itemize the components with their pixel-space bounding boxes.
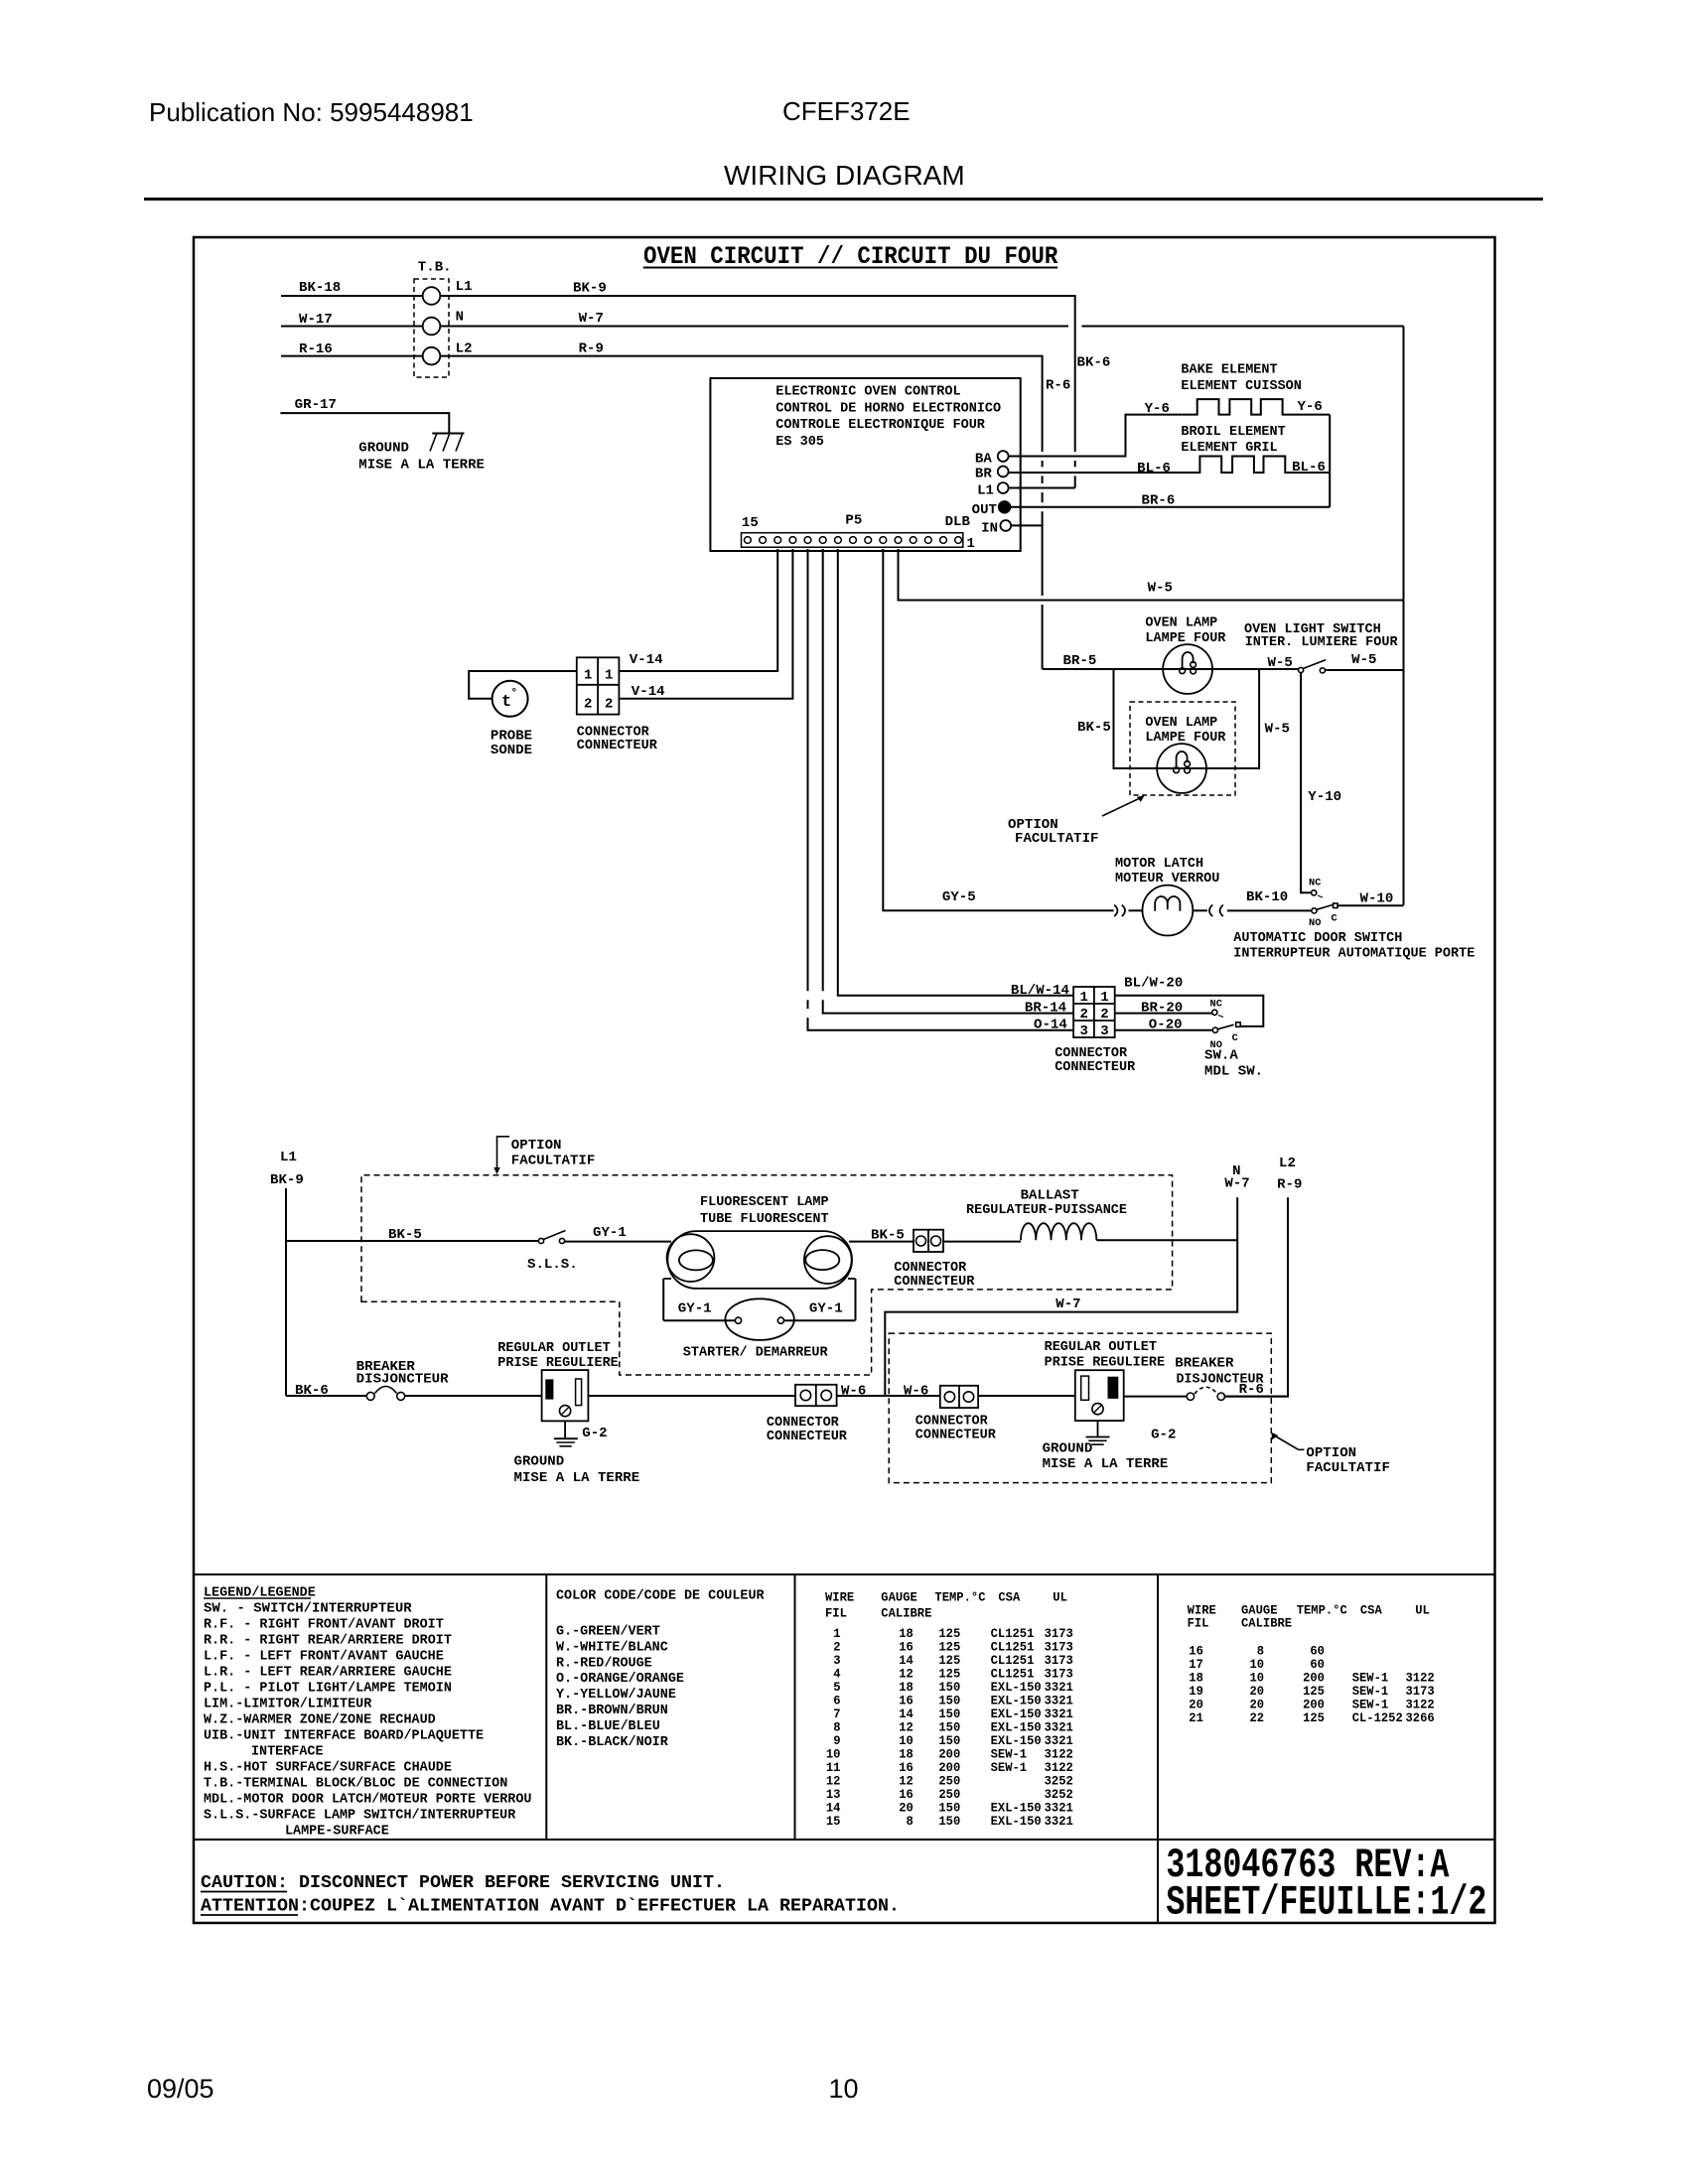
svg-text:BK-6: BK-6 [1077,356,1111,371]
svg-text:16: 16 [899,1788,914,1802]
wire probe to connector [469,671,577,699]
svg-text:R.F. - RIGHT FRONT/AVANT DROIT: R.F. - RIGHT FRONT/AVANT DROIT [204,1617,444,1632]
wire V-14 (pin 2) [619,549,792,700]
svg-text:18: 18 [899,1681,914,1695]
svg-text:15: 15 [826,1815,841,1829]
svg-text:FIL: FIL [825,1607,847,1621]
svg-text:CONNECTOR: CONNECTOR [894,1261,967,1276]
terminal L1 [977,482,1009,498]
wire W-5 [899,549,1404,601]
svg-text:5: 5 [833,1681,840,1695]
svg-text:DISJONCTEUR: DISJONCTEUR [356,1372,450,1387]
svg-text:OVEN LAMP: OVEN LAMP [1145,616,1217,631]
svg-text:NC: NC [1309,878,1322,889]
svg-text:BR.-BROWN/BRUN: BR.-BROWN/BRUN [556,1704,668,1718]
svg-text:3321: 3321 [1045,1734,1074,1748]
svg-text:3173: 3173 [1406,1685,1435,1699]
temperature probe [491,681,532,758]
svg-text:INTERRUPTEUR AUTOMATIQUE PORTE: INTERRUPTEUR AUTOMATIQUE PORTE [1233,947,1475,962]
svg-text:SEW-1: SEW-1 [991,1761,1028,1775]
svg-text:CALIBRE: CALIBRE [881,1607,932,1621]
node L2 (R-9) [1225,1157,1303,1397]
connector (W-6 left) [767,1385,848,1444]
svg-text:FACULTATIF: FACULTATIF [511,1155,596,1169]
svg-text:125: 125 [938,1654,960,1668]
wire outlet to breaker (right) [1124,1396,1187,1398]
wire BR-6 [1010,494,1330,509]
svg-text:CONNECTEUR: CONNECTEUR [1055,1060,1136,1075]
svg-text:REGULAR OUTLET: REGULAR OUTLET [1045,1340,1157,1355]
svg-text:NO: NO [1309,917,1321,929]
svg-text:3122: 3122 [1406,1672,1435,1686]
svg-text:T.B.-TERMINAL BLOCK/BLOC DE CO: T.B.-TERMINAL BLOCK/BLOC DE CONNECTION [204,1776,507,1791]
svg-text:TEMP.°C: TEMP.°C [934,1591,986,1605]
svg-text:W-5: W-5 [1268,656,1293,671]
wire BA to bake element [1009,415,1183,457]
svg-text:W-5: W-5 [1265,722,1290,737]
svg-text:FACULTATIF: FACULTATIF [1015,832,1099,847]
option boundary (fluorescent assembly) [361,1175,1173,1375]
svg-text:2: 2 [605,698,613,713]
svg-text:FIL: FIL [1188,1617,1209,1631]
svg-text:1: 1 [584,669,592,684]
svg-text:125: 125 [938,1627,960,1641]
svg-text:WIRE: WIRE [825,1591,855,1605]
svg-text:LIM.-LIMITOR/LIMITEUR: LIM.-LIMITOR/LIMITEUR [204,1697,372,1711]
svg-text:3266: 3266 [1406,1711,1435,1725]
wire W-7 return [885,1240,1237,1396]
connector P5 [742,514,975,552]
svg-text:STARTER/ DEMARREUR: STARTER/ DEMARREUR [683,1346,829,1361]
svg-text:20: 20 [1250,1685,1265,1699]
wire ballast to N [1096,1239,1237,1241]
svg-text:BK-9: BK-9 [270,1173,304,1188]
svg-text:150: 150 [938,1720,960,1734]
svg-text:S.L.S.: S.L.S. [527,1258,578,1273]
svg-text:W-7: W-7 [579,312,604,327]
svg-text:EXL-150: EXL-150 [991,1815,1042,1829]
svg-text:FLUORESCENT LAMP: FLUORESCENT LAMP [700,1195,829,1210]
svg-text:W-7: W-7 [1224,1177,1249,1192]
svg-text:BK-10: BK-10 [1246,890,1288,905]
svg-text:13: 13 [826,1788,841,1802]
svg-text:S.L.S.-SURFACE LAMP SWITCH/INT: S.L.S.-SURFACE LAMP SWITCH/INTERRUPTEUR [204,1808,516,1823]
svg-text:LAMPE FOUR: LAMPE FOUR [1145,731,1226,746]
svg-text:G-2: G-2 [1151,1429,1176,1443]
svg-text:60: 60 [1310,1645,1325,1659]
svg-text:BREAKER: BREAKER [1175,1356,1234,1371]
svg-text:1: 1 [967,537,975,552]
option label (right outlet) [1271,1433,1390,1476]
svg-text:CONTROLE ELECTRONIQUE FOUR: CONTROLE ELECTRONIQUE FOUR [775,418,985,433]
svg-text:19: 19 [1189,1685,1203,1699]
svg-text:CSA: CSA [998,1591,1020,1605]
svg-text:O.-ORANGE/ORANGE: O.-ORANGE/ORANGE [556,1672,684,1687]
svg-text:T.B.: T.B. [418,260,452,275]
terminal BR [975,467,1009,482]
wire BK-5 (right of lamp) [849,1228,914,1243]
svg-text:GROUND: GROUND [514,1455,565,1470]
inline connector (right) [1209,905,1212,917]
svg-text:COLOR CODE/CODE DE COULEUR: COLOR CODE/CODE DE COULEUR [556,1589,766,1604]
svg-text:3252: 3252 [1045,1788,1073,1802]
svg-text:PROBE: PROBE [491,729,532,744]
svg-text:L1: L1 [977,484,994,499]
svg-text:°: ° [511,688,518,700]
svg-text:OPTION: OPTION [511,1139,562,1154]
svg-text:16: 16 [899,1694,914,1707]
wire BK-9 / BK-6 [440,282,1110,488]
wire BL/W-14 [838,549,1073,999]
svg-text:BAKE ELEMENT: BAKE ELEMENT [1181,362,1277,377]
svg-text:CSA: CSA [1360,1603,1382,1617]
automatic door switch [1233,878,1475,962]
svg-text:3173: 3173 [1045,1667,1073,1681]
connector (ballast) [894,1230,975,1291]
electronic oven control ES 305 [710,378,1020,551]
svg-text:H.S.-HOT SURFACE/SURFACE CHAUD: H.S.-HOT SURFACE/SURFACE CHAUDE [204,1760,452,1775]
svg-text:BK-9: BK-9 [573,282,607,297]
wire BR-14 [823,549,1073,1016]
svg-text:MOTOR LATCH: MOTOR LATCH [1115,857,1203,872]
svg-text:150: 150 [938,1734,960,1748]
svg-text:22: 22 [1250,1711,1265,1725]
svg-text:4: 4 [833,1667,841,1681]
svg-text:10: 10 [826,1747,841,1761]
svg-text:3321: 3321 [1045,1801,1074,1815]
svg-text:BR-5: BR-5 [1063,654,1097,669]
wire table 2 [1178,1574,1495,1725]
wire R-16 [281,342,423,357]
svg-text:BL/W-20: BL/W-20 [1124,976,1183,991]
svg-text:W.Z.-WARMER ZONE/ZONE RECHAUD: W.Z.-WARMER ZONE/ZONE RECHAUD [204,1712,436,1727]
svg-text:BA: BA [975,452,993,467]
svg-text:CL1251: CL1251 [991,1667,1035,1681]
svg-text:PRISE REGULIERE: PRISE REGULIERE [1045,1356,1166,1371]
svg-text:18: 18 [899,1627,914,1641]
svg-text:BROIL ELEMENT: BROIL ELEMENT [1181,425,1285,440]
svg-text:IN: IN [981,521,998,536]
svg-text:CONNECTEUR: CONNECTEUR [577,739,658,753]
wire W-5 (optional lamp return) [1206,669,1290,768]
svg-text:W-10: W-10 [1360,892,1394,907]
breaker (left) [356,1360,450,1400]
svg-text:SEW-1: SEW-1 [1352,1685,1389,1699]
svg-text:CL1251: CL1251 [991,1654,1035,1668]
ballast [966,1189,1127,1241]
svg-text:TUBE FLUORESCENT: TUBE FLUORESCENT [700,1212,829,1227]
svg-text:OPTION: OPTION [1008,818,1058,833]
svg-text:150: 150 [938,1681,960,1695]
svg-text:EXL-150: EXL-150 [991,1681,1042,1695]
svg-text:Y-6: Y-6 [1298,400,1323,415]
svg-text:W-6: W-6 [841,1384,866,1399]
header rule [144,198,1543,201]
svg-text:1: 1 [605,669,613,684]
svg-text:17: 17 [1189,1658,1203,1672]
svg-text:8: 8 [833,1720,840,1734]
svg-text:3173: 3173 [1045,1627,1073,1641]
svg-text:C: C [1332,913,1338,925]
svg-text:3321: 3321 [1045,1815,1074,1829]
svg-text:18: 18 [1189,1672,1203,1686]
svg-text:2: 2 [1080,1008,1088,1023]
connector (W-6 right) [904,1384,997,1442]
svg-text:150: 150 [938,1815,960,1829]
svg-text:Publication No: 5995448981: Publication No: 5995448981 [149,97,474,127]
svg-text:16: 16 [899,1640,914,1654]
svg-text:2: 2 [833,1640,840,1654]
svg-text:W-5: W-5 [1148,582,1173,597]
option box (right outlet) [889,1333,1271,1483]
svg-text:L.F. - LEFT FRONT/AVANT GAUCHE: L.F. - LEFT FRONT/AVANT GAUCHE [204,1649,444,1664]
ground G-2 (right) [1043,1421,1177,1472]
wire connector to outlet (right) [978,1395,1075,1397]
svg-text:P5: P5 [845,514,862,529]
svg-text:TEMP.°C: TEMP.°C [1297,1603,1348,1617]
wire BK-5 [286,1228,538,1243]
svg-text:12: 12 [826,1774,841,1788]
svg-text:20: 20 [899,1801,914,1815]
legend [204,1585,532,1839]
svg-text:10: 10 [1250,1658,1265,1672]
svg-text:W-6: W-6 [904,1384,928,1399]
svg-text:1: 1 [833,1627,841,1641]
svg-text:200: 200 [1303,1672,1325,1686]
svg-text:09/05: 09/05 [147,2074,214,2104]
svg-text:10: 10 [829,2074,859,2104]
caution note [201,1873,900,1917]
wire O-14 [808,549,1074,1033]
svg-text:G-2: G-2 [582,1427,607,1441]
svg-text:OVEN LAMP: OVEN LAMP [1145,716,1217,731]
oven lamp 1 [1145,616,1226,694]
svg-text:SEW-1: SEW-1 [1352,1672,1389,1686]
svg-text:CONNECTEUR: CONNECTEUR [767,1430,848,1444]
svg-text:REGULAR OUTLET: REGULAR OUTLET [497,1341,610,1356]
oven lamp 2 (optional) [1130,702,1235,795]
svg-text:MISE A LA TERRE: MISE A LA TERRE [1043,1457,1169,1472]
svg-text:R-9: R-9 [579,342,604,357]
wire BK-10 [1227,890,1312,910]
starter [663,1279,855,1361]
svg-text:10: 10 [899,1734,914,1748]
svg-text:250: 250 [938,1788,960,1802]
wire R-6 [1225,1383,1289,1398]
svg-text:ELEMENT GRIL: ELEMENT GRIL [1181,441,1277,456]
svg-text:11: 11 [826,1761,841,1775]
wire L1 to BK-6 [1009,487,1075,489]
svg-text:CFEF372E: CFEF372E [782,96,911,126]
svg-text:16: 16 [1189,1645,1203,1659]
svg-text:BK.-BLACK/NOIR: BK.-BLACK/NOIR [556,1735,669,1750]
svg-text:3: 3 [1080,1024,1088,1039]
svg-text:UL: UL [1053,1591,1067,1605]
svg-text:3122: 3122 [1045,1761,1073,1775]
svg-text:L2: L2 [1279,1157,1296,1171]
svg-text:FACULTATIF: FACULTATIF [1306,1461,1390,1476]
svg-text:L1: L1 [456,280,473,295]
regular outlet (left) [497,1341,619,1421]
svg-text:8: 8 [1257,1645,1264,1659]
svg-text:EXL-150: EXL-150 [991,1707,1042,1721]
svg-text:CALIBRE: CALIBRE [1241,1617,1293,1631]
svg-text:CAUTION: DISCONNECT POWER BEFO: CAUTION: DISCONNECT POWER BEFORE SERVICI… [201,1873,725,1893]
svg-text:R-9: R-9 [1277,1177,1302,1192]
svg-text:14: 14 [899,1707,914,1721]
svg-text:GY-1: GY-1 [678,1302,712,1317]
svg-text:12: 12 [899,1720,914,1734]
svg-text:6: 6 [833,1694,840,1707]
svg-text:EXL-150: EXL-150 [991,1734,1042,1748]
breaker (right) [1175,1356,1264,1400]
svg-text:G.-GREEN/VERT: G.-GREEN/VERT [556,1625,660,1640]
svg-text:INTER. LUMIERE FOUR: INTER. LUMIERE FOUR [1245,635,1399,650]
connector (MDL) [1055,987,1136,1075]
svg-text:200: 200 [1303,1699,1325,1712]
oven light switch [1244,622,1398,673]
svg-text:60: 60 [1310,1658,1325,1672]
switch SW.A (MDL) [1204,999,1263,1080]
wire BR-20 [1115,1001,1212,1016]
terminal BA [975,451,1009,467]
svg-text:16: 16 [899,1761,914,1775]
connector (probe) [577,657,658,753]
svg-text:2: 2 [584,698,592,713]
svg-text:MISE A LA TERRE: MISE A LA TERRE [514,1471,640,1486]
regular outlet (right) [1045,1340,1166,1421]
svg-text:BK-18: BK-18 [299,281,341,296]
svg-text:15: 15 [742,516,759,531]
svg-text:GY-1: GY-1 [593,1226,627,1241]
svg-text:NC: NC [1210,999,1223,1011]
svg-text:BL.-BLUE/BLEU: BL.-BLUE/BLEU [556,1719,660,1734]
wire GR-17 [280,398,449,434]
wire W-7 [440,312,1403,327]
wire table 1 [825,1591,1073,1829]
svg-text:BL-6: BL-6 [1137,462,1171,477]
svg-text:3321: 3321 [1045,1720,1074,1734]
svg-text:BK-5: BK-5 [1077,721,1111,736]
svg-text:V-14: V-14 [630,653,663,668]
svg-text:PRISE REGULIERE: PRISE REGULIERE [497,1356,619,1371]
svg-text:MDL SW.: MDL SW. [1204,1064,1263,1079]
node L1 (BK-9 feed) [270,1151,304,1396]
option label (fluorescent) [493,1137,595,1174]
wire O-20 [1115,1019,1212,1033]
svg-text:SHEET/FEUILLE:1/2: SHEET/FEUILLE:1/2 [1166,1879,1486,1927]
svg-text:R-6: R-6 [1046,379,1070,394]
svg-text:ELEMENT CUISSON: ELEMENT CUISSON [1181,379,1302,394]
svg-text:DLB: DLB [945,515,970,530]
svg-text:MISE A LA TERRE: MISE A LA TERRE [358,459,485,474]
svg-text:8: 8 [907,1815,914,1829]
svg-text:CONNECTOR: CONNECTOR [915,1415,989,1430]
svg-text:2: 2 [1100,1008,1108,1023]
wire element common (right) [1329,415,1331,507]
svg-text:18: 18 [899,1747,914,1761]
svg-text:CL1251: CL1251 [991,1627,1035,1641]
svg-text:150: 150 [938,1694,960,1707]
svg-text:SONDE: SONDE [491,744,532,758]
svg-text:3252: 3252 [1045,1774,1073,1788]
wire BK-6 [286,1384,366,1399]
svg-text:Y-10: Y-10 [1308,790,1341,805]
svg-text:14: 14 [826,1801,841,1815]
svg-text:CONNECTEUR: CONNECTEUR [915,1429,997,1443]
svg-text:BALLAST: BALLAST [1021,1189,1079,1204]
wire W-6 junction [837,1395,940,1397]
svg-text:21: 21 [1189,1711,1203,1725]
svg-text:GR-17: GR-17 [295,398,337,413]
wire W-6 [588,1384,866,1399]
svg-text:CONTROL DE HORNO ELECTRONICO: CONTROL DE HORNO ELECTRONICO [775,401,1001,416]
svg-text:CONNECTEUR: CONNECTEUR [894,1275,975,1290]
svg-text:Y-6: Y-6 [1145,402,1170,417]
svg-text:BR: BR [975,468,993,482]
svg-text:ES 305: ES 305 [775,435,824,450]
svg-text:125: 125 [1303,1685,1325,1699]
bake element [1145,362,1331,417]
svg-text:R.-RED/ROUGE: R.-RED/ROUGE [556,1656,652,1671]
svg-text:3173: 3173 [1045,1640,1073,1654]
color code [556,1589,766,1750]
svg-text:CL-1252: CL-1252 [1352,1711,1403,1725]
switch S.L.S. [527,1231,578,1274]
wire BL/W-20 [1115,976,1264,1026]
node N (W-7) [1224,1164,1249,1240]
svg-text:REGULATEUR-PUISSANCE: REGULATEUR-PUISSANCE [966,1203,1127,1218]
svg-text:CONNECTOR: CONNECTOR [767,1416,840,1431]
svg-text:LAMPE-SURFACE: LAMPE-SURFACE [285,1824,389,1839]
svg-text:3321: 3321 [1045,1681,1074,1695]
svg-text:12: 12 [899,1667,914,1681]
broil element [1009,425,1331,477]
svg-text:CL1251: CL1251 [991,1640,1035,1654]
svg-text:UIB.-UNIT INTERFACE BOARD/PLAQ: UIB.-UNIT INTERFACE BOARD/PLAQUETTE [204,1728,484,1743]
svg-text:EXL-150: EXL-150 [991,1801,1042,1815]
svg-text:GY-5: GY-5 [942,890,976,905]
wire W-5 to right vertical [1326,669,1404,671]
svg-text:N: N [456,311,464,326]
wire V-14 (pin 1) [619,549,777,671]
svg-text:EXL-150: EXL-150 [991,1720,1042,1734]
svg-text:150: 150 [938,1801,960,1815]
svg-text:GROUND: GROUND [1043,1441,1093,1456]
svg-text:MDL.-MOTOR DOOR LATCH/MOTEUR P: MDL.-MOTOR DOOR LATCH/MOTEUR PORTE VERRO… [204,1792,532,1807]
svg-text:7: 7 [833,1707,840,1721]
svg-text:C: C [1232,1032,1239,1044]
terminal block T.B. [414,260,473,377]
svg-text:SEW-1: SEW-1 [1352,1699,1389,1712]
wire BK-5 (optional lamp) [1077,669,1157,768]
svg-text:9: 9 [833,1734,840,1748]
wire connector to ballast [943,1241,1021,1243]
svg-text:GAUGE: GAUGE [1241,1603,1278,1617]
svg-text:L.R. - LEFT REAR/ARRIERE GAUCH: L.R. - LEFT REAR/ARRIERE GAUCHE [204,1665,452,1680]
svg-text:GY-1: GY-1 [809,1302,843,1317]
svg-text:OUT: OUT [972,503,997,518]
svg-text:ATTENTION:COUPEZ L`ALIMENTATIO: ATTENTION:COUPEZ L`ALIMENTATION AVANT D`… [201,1897,900,1917]
svg-text:WIRE: WIRE [1188,1603,1217,1617]
svg-text:SEW-1: SEW-1 [991,1747,1028,1761]
svg-text:WIRING DIAGRAM: WIRING DIAGRAM [724,160,965,191]
svg-text:INTERFACE: INTERFACE [251,1744,324,1759]
svg-text:P.L. - PILOT LIGHT/LAMPE TEMOI: P.L. - PILOT LIGHT/LAMPE TEMOIN [204,1681,452,1696]
svg-text:UL: UL [1415,1603,1430,1617]
svg-text:W.-WHITE/BLANC: W.-WHITE/BLANC [556,1640,668,1655]
svg-text:3122: 3122 [1406,1699,1435,1712]
